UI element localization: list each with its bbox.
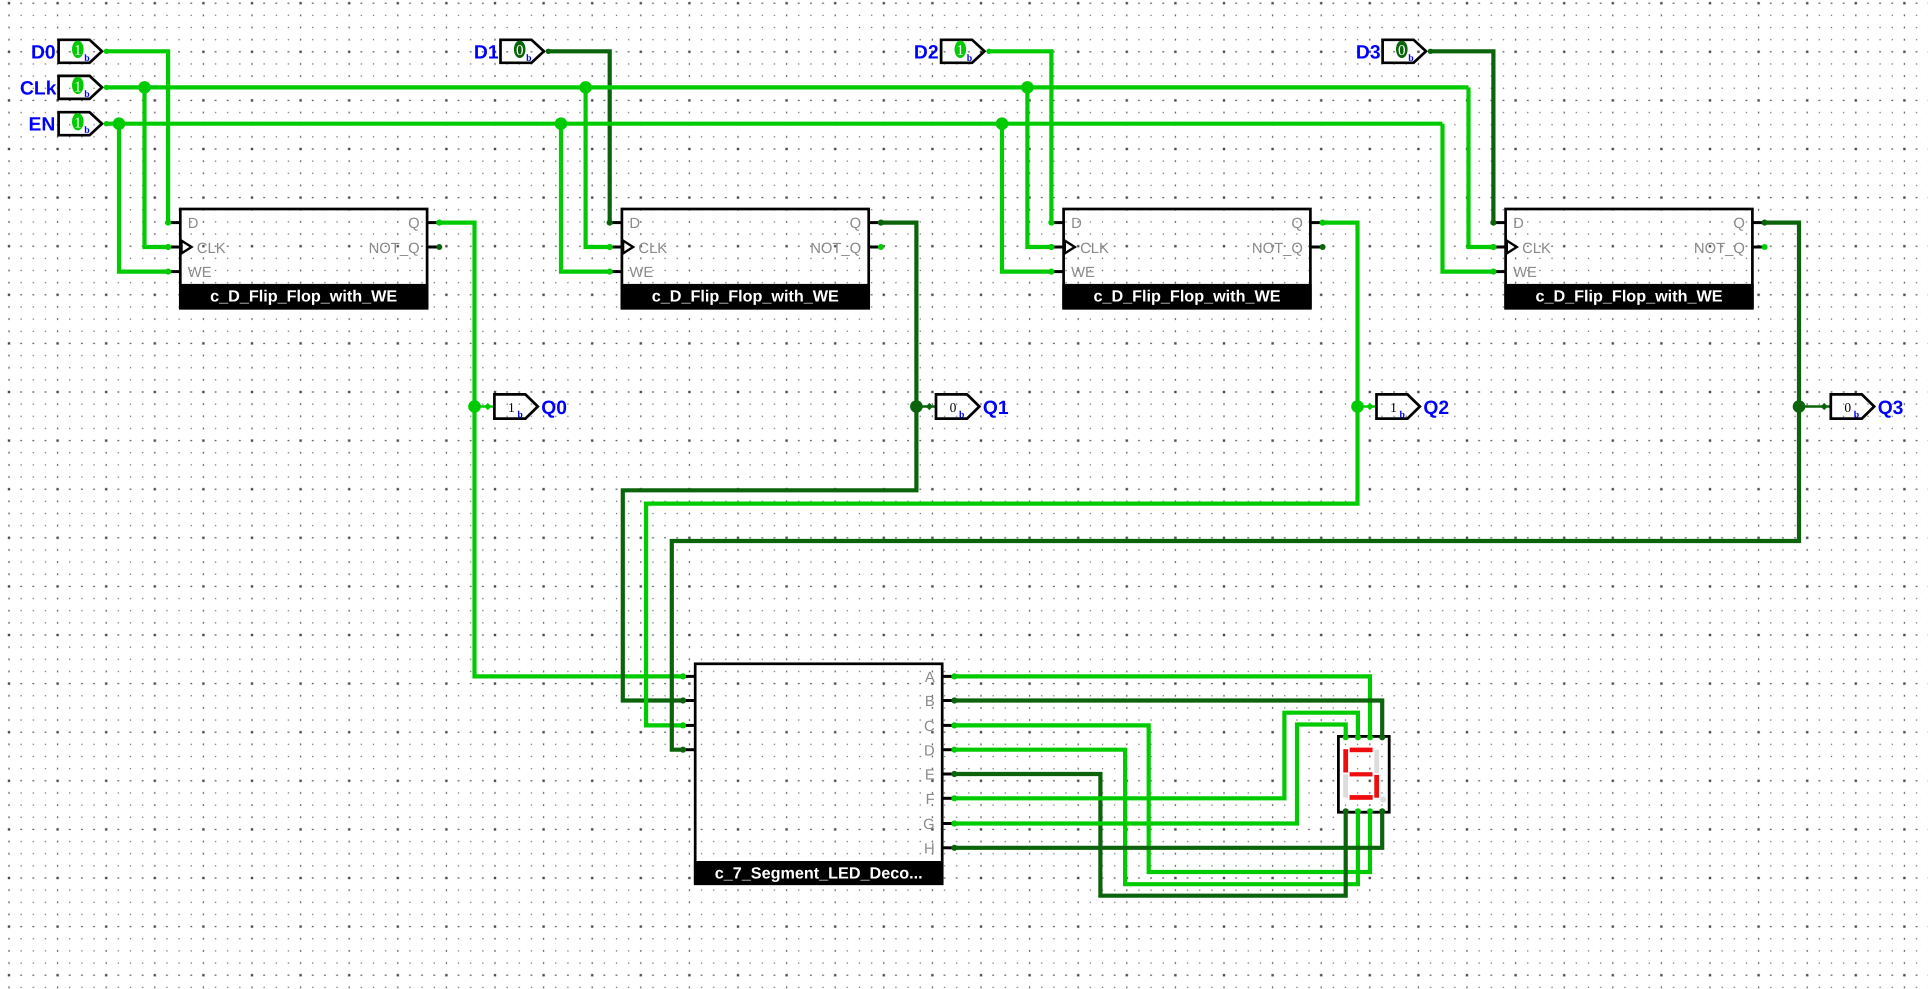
- svg-text:c_7_Segment_LED_Deco...: c_7_Segment_LED_Deco...: [715, 865, 923, 883]
- wire net F: [954, 713, 1358, 799]
- wire EN branch to U3: [1002, 124, 1051, 272]
- DS1 top pin 2 dot: [1355, 734, 1361, 740]
- U3 WE pin dot: [1048, 269, 1054, 275]
- wire CLk net horizontal: [105, 85, 1469, 89]
- U4 pin NOT_Q: [1752, 246, 1764, 249]
- wire CLk branch to U4: [1469, 87, 1494, 247]
- svg-text:Q2: Q2: [1423, 398, 1449, 419]
- svg-text:F: F: [926, 792, 935, 808]
- wire CLk branch to U1: [145, 87, 169, 247]
- pin CLk connection dot: [104, 85, 109, 90]
- wire Q2 net: [646, 223, 1357, 726]
- svg-text:0: 0: [1398, 43, 1406, 59]
- svg-text:D: D: [629, 216, 640, 232]
- segment F (lit): [1343, 749, 1348, 772]
- U2 D pin dot: [607, 220, 613, 226]
- U3 pin CLK: [1051, 246, 1063, 249]
- wire stub to tag Q2: [1358, 405, 1377, 407]
- junction EN-U1: [113, 117, 126, 130]
- wire CLk branch to U3: [1027, 87, 1051, 247]
- DS1 top pin 1 dot: [1343, 734, 1349, 740]
- svg-text:b: b: [959, 409, 965, 420]
- svg-text:b: b: [517, 409, 523, 420]
- junction Q3: [1793, 400, 1806, 413]
- DS1 bottom pin 1 dot: [1343, 808, 1349, 814]
- svg-text:b: b: [84, 89, 90, 100]
- DS1 bottom pin 3 dot: [1367, 808, 1373, 814]
- svg-text:Q: Q: [1733, 216, 1745, 232]
- 7-segment LED display DS1: [1338, 736, 1389, 812]
- D flip-flop U2 (c_D_Flip_Flop_with_WE): [610, 209, 881, 308]
- output pin Q2: [1377, 394, 1420, 418]
- U5 output D dot: [951, 747, 957, 753]
- U2 pin D: [610, 221, 622, 224]
- svg-text:Q0: Q0: [541, 398, 567, 419]
- svg-text:1: 1: [74, 79, 82, 95]
- svg-text:0: 0: [950, 400, 957, 415]
- svg-text:D: D: [1071, 216, 1082, 232]
- segment D (lit): [1350, 795, 1373, 800]
- wire EN branch to U4: [1443, 124, 1494, 272]
- U4 pin CLK: [1493, 246, 1505, 249]
- input pin D2: [941, 40, 984, 63]
- svg-text:Q: Q: [1291, 216, 1303, 232]
- svg-text:Q1: Q1: [983, 398, 1009, 419]
- input pin D3: [1383, 40, 1426, 63]
- wire D2 net: [987, 51, 1051, 222]
- wire net G: [954, 725, 1345, 824]
- wire CLk branch to U2: [586, 87, 610, 247]
- input pin EN: [59, 112, 102, 135]
- U3 D pin dot: [1048, 220, 1054, 226]
- U3 pin Q: [1310, 221, 1322, 224]
- wire Q3 net: [672, 223, 1799, 750]
- wire stub to tag Q0: [475, 405, 495, 407]
- segment A (lit): [1350, 748, 1373, 753]
- svg-text:H: H: [924, 841, 935, 857]
- U1 Q pin dot: [436, 220, 442, 226]
- U1 D pin dot: [165, 220, 171, 226]
- output pin Q0: [494, 394, 537, 418]
- wire Q0 net: [439, 223, 683, 677]
- svg-text:b: b: [1854, 409, 1860, 420]
- svg-text:NOT_Q: NOT_Q: [1694, 241, 1745, 257]
- junction CLk-U3: [1021, 81, 1034, 94]
- input pin D0: [59, 40, 102, 63]
- svg-text:CLK: CLK: [638, 241, 667, 257]
- U3 pin WE: [1051, 270, 1063, 273]
- svg-text:NOT_Q: NOT_Q: [369, 241, 420, 257]
- U4 NOT_Q pin dot: [1762, 244, 1768, 250]
- U3 pin NOT_Q: [1310, 246, 1322, 249]
- wire EN net horizontal: [105, 122, 1443, 126]
- svg-text:1: 1: [508, 400, 515, 415]
- U5 input 1 dot: [680, 673, 686, 679]
- svg-text:c_D_Flip_Flop_with_WE: c_D_Flip_Flop_with_WE: [1093, 287, 1280, 305]
- U5 output A dot: [951, 673, 957, 679]
- D flip-flop U3 (c_D_Flip_Flop_with_WE): [1051, 209, 1322, 308]
- 7-segment decoder U5 (c_7_Segment_LED_Deco...): [694, 664, 944, 884]
- svg-text:WE: WE: [1513, 265, 1537, 281]
- svg-text:D3: D3: [1356, 42, 1381, 63]
- U1 NOT_Q pin dot: [436, 244, 442, 250]
- svg-text:E: E: [925, 768, 935, 784]
- U5 output H dot: [951, 845, 957, 851]
- segment B (unlit): [1374, 750, 1379, 773]
- junction Q0: [468, 400, 481, 413]
- DS1 top pin 4 dot: [1379, 734, 1385, 740]
- U5 output pin B: [942, 699, 954, 702]
- U1 CLK pin dot: [165, 244, 171, 250]
- U5 output pin C: [942, 724, 954, 727]
- svg-text:NOT_Q: NOT_Q: [1252, 241, 1303, 257]
- wire net C: [954, 725, 1370, 872]
- svg-text:D1: D1: [474, 42, 499, 63]
- segment C (lit): [1374, 775, 1379, 798]
- output pin Q1: [936, 394, 979, 418]
- U2 pin Q: [869, 221, 881, 224]
- junction EN-U3: [996, 117, 1009, 130]
- U1 pin CLK: [168, 246, 180, 249]
- U5 output F dot: [951, 795, 957, 801]
- U2 pin WE: [610, 270, 622, 273]
- U5 input pin 1: [683, 675, 695, 678]
- D flip-flop U1 (c_D_Flip_Flop_with_WE): [168, 209, 439, 308]
- U5 output pin F: [942, 797, 954, 800]
- svg-text:D: D: [1513, 216, 1524, 232]
- junction CLk-U2: [579, 81, 592, 94]
- svg-text:A: A: [925, 670, 935, 686]
- wire D1 net: [546, 51, 609, 222]
- U2 pin NOT_Q: [869, 246, 881, 249]
- svg-text:0: 0: [516, 43, 524, 59]
- wire EN branch to U1: [119, 124, 168, 272]
- svg-text:EN: EN: [29, 115, 56, 136]
- svg-text:0: 0: [1844, 400, 1851, 415]
- U4 pin Q: [1752, 221, 1764, 224]
- svg-text:b: b: [1408, 53, 1414, 64]
- U1 WE pin dot: [165, 269, 171, 275]
- U5 output pin H: [942, 846, 954, 849]
- svg-text:1: 1: [74, 116, 82, 132]
- segment G (lit): [1350, 772, 1373, 776]
- svg-text:1: 1: [1390, 400, 1397, 415]
- DS1 bottom pin 2 dot: [1355, 808, 1361, 814]
- U2 NOT_Q pin dot: [878, 244, 884, 250]
- pin D1 connection dot: [546, 49, 551, 54]
- U3 NOT_Q pin dot: [1320, 244, 1326, 250]
- input pin D1: [501, 40, 544, 63]
- svg-text:C: C: [924, 719, 935, 735]
- D flip-flop U4 (c_D_Flip_Flop_with_WE): [1493, 209, 1764, 308]
- svg-text:c_D_Flip_Flop_with_WE: c_D_Flip_Flop_with_WE: [1535, 287, 1722, 305]
- U5 output pin E: [942, 773, 954, 776]
- segment E (unlit): [1343, 774, 1348, 798]
- U5 output pin A: [942, 675, 954, 678]
- wire D0 net: [105, 51, 169, 222]
- U2 CLK pin dot: [607, 244, 613, 250]
- svg-text:1: 1: [957, 43, 965, 59]
- U5 input pin 3: [683, 724, 695, 727]
- svg-text:c_D_Flip_Flop_with_WE: c_D_Flip_Flop_with_WE: [210, 287, 397, 305]
- U1 pin D: [168, 221, 180, 224]
- U5 output G dot: [951, 820, 957, 826]
- svg-text:b: b: [1400, 409, 1406, 420]
- U1 pin WE: [168, 270, 180, 273]
- svg-text:WE: WE: [629, 265, 653, 281]
- svg-text:CLK: CLK: [1522, 241, 1551, 257]
- svg-text:CLK: CLK: [197, 241, 226, 257]
- svg-text:b: b: [967, 53, 973, 64]
- svg-text:D0: D0: [31, 42, 56, 63]
- U5 input pin 4: [683, 748, 695, 751]
- output pin Q3: [1831, 394, 1874, 418]
- U4 D pin dot: [1490, 220, 1496, 226]
- U1 pin Q: [427, 221, 439, 224]
- svg-text:B: B: [925, 694, 935, 710]
- svg-text:b: b: [526, 53, 532, 64]
- pin D3 connection dot: [1428, 49, 1433, 54]
- decimal point (unlit): [1380, 797, 1386, 803]
- pin D0 connection dot: [104, 49, 109, 54]
- svg-text:WE: WE: [1071, 265, 1095, 281]
- wire net D: [954, 750, 1358, 885]
- junction CLk-U1: [138, 81, 151, 94]
- U5 output E dot: [951, 771, 957, 777]
- U4 pin WE: [1493, 270, 1505, 273]
- svg-text:D: D: [188, 216, 199, 232]
- DS1 top pin 3 dot: [1367, 734, 1373, 740]
- U4 Q pin dot: [1762, 220, 1768, 226]
- U3 Q pin dot: [1320, 220, 1326, 226]
- U2 pin CLK: [610, 246, 622, 249]
- U4 pin D: [1493, 221, 1505, 224]
- svg-text:WE: WE: [188, 265, 212, 281]
- U5 input 4 dot: [680, 747, 686, 753]
- svg-text:G: G: [923, 817, 935, 833]
- DS1 bottom pin 4 dot: [1379, 808, 1385, 814]
- U5 input 3 dot: [680, 722, 686, 728]
- svg-text:b: b: [84, 53, 90, 64]
- U1 pin NOT_Q: [427, 246, 439, 249]
- wire D3 net: [1429, 51, 1494, 222]
- wire stub to tag Q3: [1799, 405, 1831, 407]
- svg-text:NOT_Q: NOT_Q: [810, 241, 861, 257]
- wire net A: [954, 676, 1370, 736]
- wire Q1 net: [623, 223, 917, 701]
- svg-text:b: b: [84, 125, 90, 136]
- U2 WE pin dot: [607, 269, 613, 275]
- pin EN connection dot: [104, 121, 109, 126]
- pin D2 connection dot: [986, 49, 991, 54]
- svg-text:Q: Q: [408, 216, 420, 232]
- wire net H: [954, 812, 1382, 848]
- U5 output pin D: [942, 748, 954, 751]
- U3 pin D: [1051, 221, 1063, 224]
- U5 output pin G: [942, 822, 954, 825]
- wire net E: [954, 774, 1345, 896]
- junction Q2: [1351, 400, 1364, 413]
- U2 Q pin dot: [878, 220, 884, 226]
- svg-text:c_D_Flip_Flop_with_WE: c_D_Flip_Flop_with_WE: [652, 287, 839, 305]
- svg-text:Q: Q: [850, 216, 862, 232]
- U5 output B dot: [951, 697, 957, 703]
- svg-text:1: 1: [74, 43, 82, 59]
- junction Q1: [910, 400, 923, 413]
- wire stub to tag Q1: [916, 405, 936, 407]
- wire net B: [954, 701, 1382, 737]
- svg-text:D: D: [924, 743, 935, 759]
- U5 output C dot: [951, 722, 957, 728]
- U4 CLK pin dot: [1490, 244, 1496, 250]
- U3 CLK pin dot: [1048, 244, 1054, 250]
- junction EN-U2: [555, 117, 568, 130]
- U4 WE pin dot: [1490, 269, 1496, 275]
- svg-text:Q3: Q3: [1878, 398, 1904, 419]
- svg-text:CLk: CLk: [20, 78, 57, 99]
- svg-text:D2: D2: [914, 42, 939, 63]
- U5 input pin 2: [683, 699, 695, 702]
- svg-text:CLK: CLK: [1080, 241, 1109, 257]
- input pin CLk: [59, 76, 102, 99]
- wire EN branch to U2: [561, 124, 610, 272]
- U5 input 2 dot: [680, 697, 686, 703]
